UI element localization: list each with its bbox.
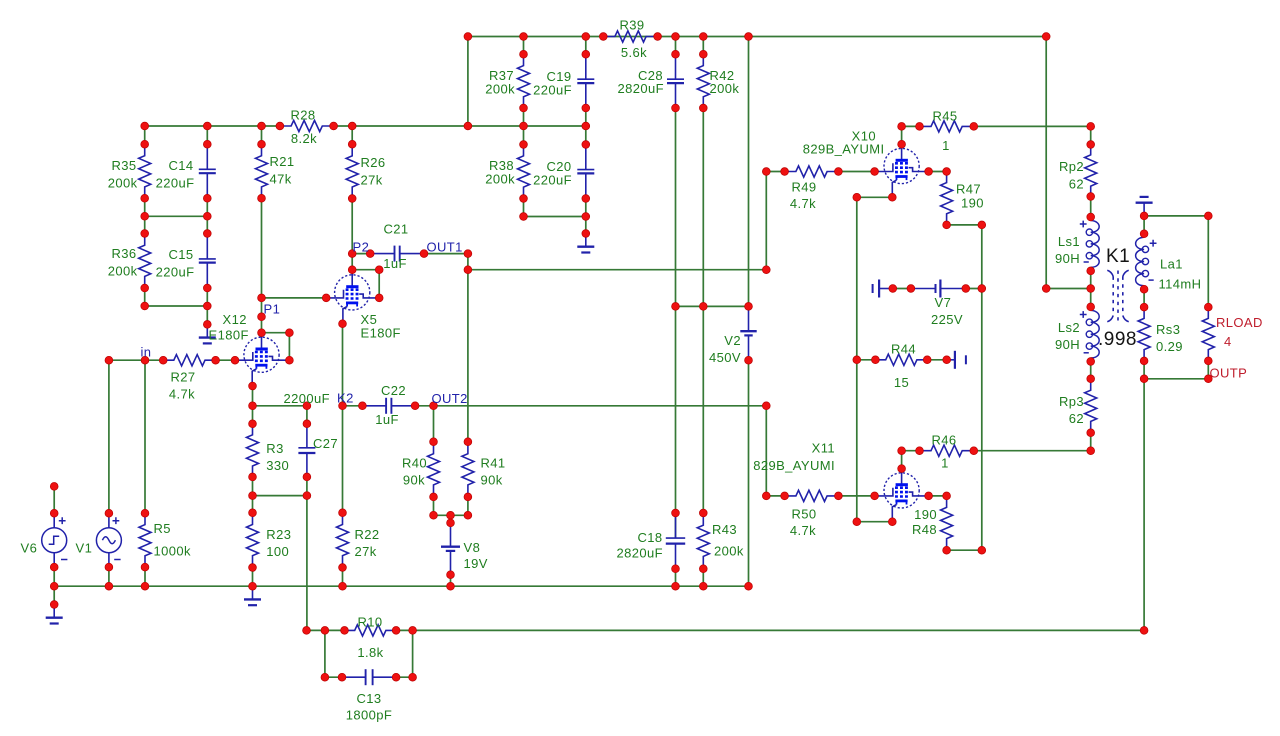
resistor Rs3: [1138, 307, 1150, 361]
svg-text:R26: R26: [361, 155, 386, 170]
svg-text:K2: K2: [337, 391, 354, 406]
wire Rs3 bottom: [1143, 361, 1145, 379]
svg-text:5.6k: 5.6k: [621, 45, 647, 60]
capacitor C19: [585, 54, 587, 79]
resistor R45: [920, 121, 974, 132]
resistor R28: [280, 120, 334, 131]
svg-text:R43: R43: [712, 522, 737, 537]
junction dots transformer primary: [1087, 141, 1095, 149]
resistor R22: [337, 513, 349, 568]
transformer K1 core: [1117, 271, 1119, 321]
svg-text:R23: R23: [266, 527, 291, 542]
resistor RLOAD: [1202, 307, 1214, 361]
svg-text:15: 15: [894, 375, 909, 390]
wire X11 cathode row: [857, 521, 893, 523]
svg-text:R50: R50: [791, 507, 816, 522]
svg-text:R44: R44: [891, 342, 916, 357]
junction dots R48: [943, 546, 951, 554]
wire top supply rail: [468, 36, 1046, 38]
wire rail B+ row: [145, 125, 280, 127]
svg-text:R10: R10: [357, 615, 382, 630]
junction dots V8: [447, 519, 455, 527]
svg-text:Rp3: Rp3: [1059, 394, 1084, 409]
svg-text:2820uF: 2820uF: [618, 81, 665, 96]
resistor R48: [941, 496, 953, 550]
svg-text:47k: 47k: [270, 172, 292, 187]
junction dots R35 R36 ladder: [141, 140, 149, 148]
svg-text:V8: V8: [464, 540, 481, 555]
wire K2 to R22: [342, 406, 344, 513]
wire R41 lead: [467, 497, 469, 515]
svg-text:Ls2: Ls2: [1058, 320, 1080, 335]
svg-text:2200uF: 2200uF: [284, 391, 331, 406]
ground under C15 column: [206, 324, 208, 337]
svg-text:1uF: 1uF: [375, 412, 399, 427]
svg-text:C13: C13: [356, 691, 381, 706]
svg-text:R27: R27: [170, 370, 195, 385]
junction dots R40 R41: [430, 438, 438, 446]
svg-text:100: 100: [266, 544, 289, 559]
resistor R39: [603, 31, 657, 42]
junction dots R47: [943, 221, 951, 229]
wire La1 leads: [1143, 216, 1145, 234]
svg-text:190: 190: [961, 196, 984, 211]
wire V6 to rail: [53, 567, 55, 604]
voltage source V7 battery: [872, 284, 874, 293]
svg-text:V6: V6: [21, 541, 38, 556]
capacitor C21: [370, 253, 394, 255]
wire R46 row: [902, 450, 920, 452]
junction dots C28 R42: [672, 50, 680, 58]
resistor Rp2: [1085, 145, 1097, 197]
wire R42 column: [702, 37, 704, 55]
svg-text:C14: C14: [168, 158, 193, 173]
resistor R40: [428, 442, 440, 497]
wire OUT2 right vertical: [765, 406, 767, 496]
wire R35 ladder mid junction: [145, 215, 208, 217]
capacitor C13: [342, 676, 366, 678]
wire R50 row: [766, 495, 784, 497]
wire R37 C19 junction row: [524, 216, 586, 218]
wire R49 row: [766, 171, 784, 173]
svg-text:V7: V7: [935, 295, 952, 310]
svg-text:R36: R36: [111, 246, 136, 261]
junction dots X5: [322, 294, 330, 302]
wire R3 C27 bottom junction: [253, 495, 307, 497]
svg-text:E180F: E180F: [361, 326, 401, 341]
svg-text:R49: R49: [791, 180, 816, 195]
svg-text:1800pF: 1800pF: [346, 708, 393, 723]
wire OUT1 right vertical: [765, 172, 767, 270]
wire V2 column: [748, 37, 750, 307]
resistor R47: [941, 172, 953, 225]
wire C19 column: [585, 37, 587, 55]
junction dot V2 bottom: [745, 356, 753, 364]
wire V8 column: [450, 515, 452, 523]
wire Rp2 column: [1090, 126, 1092, 144]
wire R36 ladder bottom junction: [145, 305, 208, 307]
wire X11 screen connect: [929, 495, 947, 497]
junction dots V1 R5: [105, 509, 113, 517]
junction dots R23 R22: [249, 509, 257, 517]
wire V6 stub: [53, 486, 55, 513]
svg-text:2820uF: 2820uF: [617, 546, 664, 561]
svg-text:27k: 27k: [361, 173, 383, 188]
svg-text:90k: 90k: [403, 473, 425, 488]
svg-text:X12: X12: [223, 312, 247, 327]
wire output bottom row: [1144, 378, 1208, 380]
svg-text:C15: C15: [168, 247, 193, 262]
junction dots in row: [105, 356, 113, 364]
svg-text:P1: P1: [264, 302, 281, 317]
wire R47 top connect: [929, 171, 947, 173]
junction dots V6: [50, 483, 58, 491]
svg-text:P2: P2: [353, 240, 370, 255]
svg-text:R47: R47: [956, 182, 981, 197]
resistor R27: [163, 355, 215, 366]
svg-text:C27: C27: [313, 436, 338, 451]
svg-text:220uF: 220uF: [156, 265, 195, 280]
svg-text:450V: 450V: [709, 350, 741, 365]
junction dots C22 row: [339, 402, 347, 410]
junction dots C21 row: [366, 250, 374, 258]
wire R48 bottom row: [947, 549, 982, 551]
svg-text:200k: 200k: [108, 264, 138, 279]
junction dots V7 row: [889, 285, 897, 293]
svg-text:C21: C21: [383, 222, 408, 237]
junction dots 2200uF row: [249, 402, 257, 410]
wire R47 bottom row: [947, 224, 982, 226]
wire X5 grid row: [262, 297, 327, 299]
resistor R21: [256, 144, 268, 198]
voltage source V6: [42, 528, 67, 553]
svg-text:330: 330: [266, 458, 289, 473]
capacitor C22: [362, 405, 386, 407]
svg-text:114mH: 114mH: [1159, 277, 1202, 292]
junction dots La1 Rs3 column: [1140, 212, 1148, 220]
wire R26 column: [351, 126, 353, 144]
wire right vertical R47 to R48: [981, 225, 983, 550]
inductor La1: [1143, 234, 1145, 238]
svg-text:R40: R40: [402, 456, 427, 471]
wire R21 column: [261, 126, 263, 144]
svg-text:19V: 19V: [464, 556, 488, 571]
svg-text:8.2k: 8.2k: [291, 131, 317, 146]
svg-text:R21: R21: [270, 154, 295, 169]
svg-text:90k: 90k: [481, 473, 503, 488]
resistor R41: [462, 442, 474, 497]
resistor R38: [518, 145, 530, 199]
ground below R23: [252, 586, 254, 599]
svg-text:C22: C22: [381, 383, 406, 398]
wire ground rail: [54, 585, 748, 587]
svg-text:V1: V1: [76, 541, 93, 556]
wire La1 top row: [1144, 215, 1208, 217]
wire R5 column: [144, 360, 146, 513]
svg-text:829B_AYUMI: 829B_AYUMI: [753, 458, 835, 473]
wire X5 anode loop: [352, 269, 379, 271]
wire C22 row: [343, 405, 363, 407]
capacitor C15: [206, 234, 208, 259]
junction dots R3 C27: [249, 420, 257, 428]
wire C13 left vertical: [324, 630, 326, 677]
wire in row: [109, 359, 163, 361]
junction dots R37 C19 ladder: [520, 50, 528, 58]
svg-text:200k: 200k: [485, 172, 515, 187]
voltage source V8 battery: [450, 523, 452, 547]
wire long vertical from top rail: [1045, 37, 1047, 289]
ground under C20 column: [585, 234, 587, 247]
svg-text:1: 1: [942, 138, 950, 153]
resistor R5: [139, 513, 151, 567]
resistor R26: [346, 144, 358, 198]
junction dots R50 row: [762, 492, 770, 500]
svg-text:R5: R5: [154, 521, 171, 536]
svg-text:R3: R3: [266, 441, 283, 456]
svg-text:C18: C18: [637, 530, 662, 545]
ground above La1: [1143, 203, 1145, 216]
svg-text:OUTP: OUTP: [1210, 366, 1248, 381]
svg-text:R48: R48: [912, 522, 937, 537]
capacitor C14: [206, 144, 208, 169]
tube X12 E180F: [244, 337, 279, 372]
junction dots R49 row: [762, 168, 770, 176]
wire R37 column: [523, 37, 525, 55]
wire RLOAD column: [1207, 216, 1209, 307]
resistor R46: [920, 445, 974, 456]
resistor R50: [785, 490, 839, 501]
svg-text:in: in: [141, 345, 152, 360]
svg-text:OUT1: OUT1: [427, 240, 463, 255]
wire C14 column: [206, 126, 208, 144]
svg-text:200k: 200k: [710, 81, 740, 96]
svg-text:62: 62: [1069, 177, 1084, 192]
svg-text:4.7k: 4.7k: [790, 523, 816, 538]
capacitor C18: [675, 513, 677, 538]
wire X11 anode vertical: [901, 451, 903, 469]
resistor R3: [247, 424, 259, 477]
svg-text:1uF: 1uF: [383, 256, 407, 271]
junction dots X12: [258, 294, 266, 302]
wire X10 anode vertical: [901, 126, 903, 144]
wire C21 row: [352, 253, 370, 255]
svg-text:200k: 200k: [714, 544, 744, 559]
wire X10 cathode row: [857, 196, 893, 198]
svg-text:.998: .998: [1098, 329, 1137, 350]
resistor R35: [139, 144, 151, 198]
capacitor C28: [675, 54, 677, 79]
wire R45 row: [902, 125, 920, 127]
svg-text:R22: R22: [355, 527, 380, 542]
svg-text:R41: R41: [481, 456, 506, 471]
svg-text:X11: X11: [812, 441, 835, 456]
wire secondary down to feedback row: [1143, 379, 1145, 631]
wire OUT1 column: [467, 254, 469, 442]
ground below V6: [53, 605, 55, 618]
svg-text:220uF: 220uF: [533, 83, 572, 98]
junction dots R10 row: [303, 627, 311, 635]
capacitor C20: [585, 145, 587, 170]
wire X12 screen loop: [262, 332, 290, 334]
wire B+ tap row to V2: [676, 305, 749, 307]
svg-text:90H: 90H: [1055, 251, 1080, 266]
junction dots C18 R43: [672, 509, 680, 517]
junction dots OUT1 row: [464, 266, 472, 274]
wire C13 row: [325, 676, 342, 678]
tube X11 829B: [884, 473, 919, 508]
svg-text:V2: V2: [724, 333, 741, 348]
wire R10 row: [307, 629, 345, 631]
svg-text:220uF: 220uF: [156, 176, 195, 191]
svg-text:200k: 200k: [108, 176, 138, 191]
wire R3 leads: [252, 406, 254, 424]
resistor R37: [518, 54, 530, 108]
junction dots B+ row: [141, 122, 149, 130]
svg-text:220uF: 220uF: [533, 173, 572, 188]
junction dots C13 row: [321, 673, 329, 681]
wire V7 row from long vertical: [1046, 288, 1091, 290]
junction dots ground rail: [50, 582, 58, 590]
capacitor C27: [306, 424, 308, 448]
svg-text:R45: R45: [932, 109, 957, 124]
wire Ls1 Ls2 junction: [1090, 271, 1092, 307]
svg-text:Rs3: Rs3: [1156, 322, 1180, 337]
resistor R10: [345, 625, 397, 636]
resistor R43: [697, 513, 709, 569]
svg-text:90H: 90H: [1055, 337, 1080, 352]
svg-text:Rp2: Rp2: [1059, 159, 1084, 174]
junction dots B+ tap row: [672, 303, 680, 311]
svg-text:R39: R39: [619, 18, 644, 33]
svg-text:190: 190: [914, 507, 937, 522]
wire R40 column: [433, 406, 435, 442]
resistor Rp3: [1085, 379, 1097, 433]
wire R44 row left: [857, 359, 876, 361]
svg-text:0.29: 0.29: [1156, 339, 1183, 354]
svg-text:RLOAD: RLOAD: [1216, 315, 1263, 330]
resistor R49: [785, 166, 839, 177]
junction dots R44 row: [853, 356, 861, 364]
wire V1 column: [108, 360, 110, 513]
battery symbol at R44 right: [947, 359, 955, 361]
svg-text:27k: 27k: [355, 544, 377, 559]
wire V7 green segments: [893, 288, 911, 290]
svg-text:1.8k: 1.8k: [357, 645, 383, 660]
svg-text:200k: 200k: [485, 82, 515, 97]
wire C28 column: [675, 37, 677, 55]
tube X10 829B: [884, 148, 919, 183]
wire OUT1 row: [468, 269, 766, 271]
svg-text:1: 1: [941, 456, 949, 471]
svg-text:Ls1: Ls1: [1058, 234, 1080, 249]
svg-text:1000k: 1000k: [154, 544, 192, 559]
resistor R36: [139, 234, 151, 289]
inductor Ls1: [1090, 217, 1092, 221]
voltage source V2 battery: [748, 306, 750, 331]
junction dots RLOAD: [1204, 212, 1212, 220]
junction dots top rail: [464, 33, 472, 41]
wire C27 junction down to feedback: [306, 496, 308, 631]
svg-text:OUT2: OUT2: [432, 391, 468, 406]
svg-text:E180F: E180F: [209, 328, 249, 343]
resistor R44: [875, 354, 927, 365]
tube X5 E180F: [335, 275, 370, 310]
wire C27 leads: [306, 406, 308, 424]
resistor R42: [697, 54, 709, 108]
svg-text:K1: K1: [1106, 246, 1130, 267]
svg-text:R35: R35: [111, 158, 136, 173]
resistor R23: [247, 513, 259, 568]
svg-text:4.7k: 4.7k: [169, 387, 195, 402]
wire Rp3 bottom: [1090, 433, 1092, 451]
svg-text:225V: 225V: [931, 312, 963, 327]
wire C13 right vertical: [412, 630, 414, 677]
svg-text:4.7k: 4.7k: [790, 196, 816, 211]
wire X12 cathode down: [252, 386, 254, 406]
wire top rail to B+ row vertical: [467, 37, 469, 127]
svg-text:4: 4: [1224, 334, 1232, 349]
voltage source V1: [96, 528, 121, 553]
wire 2200uF row: [253, 405, 307, 407]
wire Ls2 to Rp3: [1090, 362, 1092, 379]
wire C18 leads: [675, 513, 677, 539]
wire R35 column: [144, 126, 146, 144]
junction dots X10: [898, 123, 906, 131]
wire R40 R41 bottom row: [434, 514, 468, 516]
svg-text:La1: La1: [1160, 257, 1183, 272]
svg-text:62: 62: [1069, 411, 1084, 426]
wire X5 cathode down: [342, 324, 344, 406]
svg-text:R28: R28: [290, 108, 315, 123]
svg-text:829B_AYUMI: 829B_AYUMI: [803, 142, 885, 157]
wire cathode rail vertical: [856, 197, 858, 521]
svg-text:R46: R46: [931, 433, 956, 448]
junction dots R21 R26: [258, 140, 266, 148]
junction dots X11: [898, 447, 906, 455]
inductor Ls2: [1090, 307, 1092, 311]
